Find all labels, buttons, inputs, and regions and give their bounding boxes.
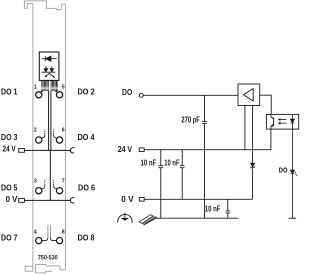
svg-text:DO 4: DO 4 xyxy=(78,133,95,142)
schematic 0V terminal square xyxy=(139,198,144,202)
svg-text:DO 3: DO 3 xyxy=(1,133,18,142)
svg-text:3: 3 xyxy=(34,178,37,184)
svg-text:DO 6: DO 6 xyxy=(78,183,95,192)
terminal 4 xyxy=(36,238,42,244)
module 24V terminal square xyxy=(19,149,25,153)
chassis earth symbol xyxy=(139,215,157,226)
module 0V wire xyxy=(24,199,70,201)
module 0V terminal square xyxy=(19,199,25,203)
wire amplifier output to optocoupler xyxy=(260,95,272,114)
DO output end bar xyxy=(289,217,296,219)
light arrows in optocoupler xyxy=(278,118,287,124)
svg-text:24 V: 24 V xyxy=(3,145,17,154)
svg-text:DO: DO xyxy=(279,166,288,175)
terminal 7 xyxy=(56,188,62,194)
wire DO to amplifier xyxy=(143,94,238,96)
svg-text:270 pF: 270 pF xyxy=(181,116,200,125)
svg-text:1: 1 xyxy=(34,84,37,90)
terminal 2 xyxy=(36,137,42,143)
svg-text:10 nF: 10 nF xyxy=(164,158,179,167)
svg-text:0 V: 0 V xyxy=(6,195,18,204)
wire amplifier supply pin 24V xyxy=(244,106,246,150)
DO input terminal circle xyxy=(139,93,143,97)
wire optocoupler emitter to 24V rail xyxy=(270,129,272,150)
terminal hatch block under box xyxy=(41,80,48,91)
0V rail xyxy=(144,198,252,200)
terminal 8 xyxy=(56,238,62,244)
svg-text:8: 8 xyxy=(62,230,65,236)
svg-text:DO 1: DO 1 xyxy=(1,87,18,96)
terminal 6 xyxy=(56,137,62,143)
wire amplifier pin with suppressor diode xyxy=(252,106,254,200)
svg-text:4: 4 xyxy=(34,230,37,236)
LED DO status indicator xyxy=(290,129,297,218)
module outline bottom profile xyxy=(25,265,65,273)
svg-text:10 nF: 10 nF xyxy=(205,204,221,213)
internal bus double line xyxy=(49,91,51,150)
svg-text:6: 6 xyxy=(62,128,65,134)
svg-text:10 nF: 10 nF xyxy=(141,158,157,167)
status LEDs inside box xyxy=(42,66,56,77)
module outline top profile xyxy=(24,1,65,10)
svg-text:0 V: 0 V xyxy=(121,195,134,204)
0V pass-through contact arc xyxy=(70,198,74,203)
svg-text:DO 5: DO 5 xyxy=(1,183,18,192)
diode D1 inside box xyxy=(42,56,57,61)
svg-text:2: 2 xyxy=(34,128,37,134)
LED in optocoupler xyxy=(290,114,294,129)
module left edge xyxy=(32,4,34,272)
svg-text:DO 2: DO 2 xyxy=(78,87,95,96)
module right edge xyxy=(64,4,66,270)
capacitor C1 10nF 24V to earth xyxy=(159,150,164,219)
24V pass-through contact arc xyxy=(70,148,74,153)
capacitor C2 10nF 24V to 0V xyxy=(180,150,185,200)
svg-text:DO: DO xyxy=(122,88,133,97)
svg-text:DO 7: DO 7 xyxy=(1,233,18,242)
24V rail xyxy=(144,149,271,151)
earth line xyxy=(156,217,238,219)
phototransistor in optocoupler xyxy=(271,114,274,129)
svg-text:750-530: 750-530 xyxy=(38,255,58,262)
capacitor C3 270pF DO to earth xyxy=(202,95,207,218)
capacitor C4 10nF 0V to earth xyxy=(226,199,231,218)
svg-text:7: 7 xyxy=(62,178,65,184)
terminal 3 xyxy=(36,188,42,194)
internal bus single line xyxy=(49,150,51,200)
svg-text:DO 8: DO 8 xyxy=(78,233,95,242)
module 24V wire xyxy=(24,149,70,151)
terminal 5 xyxy=(56,92,62,98)
functional earth symbol xyxy=(118,213,132,223)
suppressor diode V1 xyxy=(251,163,255,168)
amplifier U2 xyxy=(238,84,260,106)
electronics box U1 xyxy=(39,52,59,80)
terminal 1 xyxy=(36,92,42,98)
optocoupler U3 xyxy=(266,114,298,129)
schematic 24V terminal square xyxy=(139,148,144,152)
svg-text:24 V: 24 V xyxy=(118,145,133,154)
svg-text:5: 5 xyxy=(62,84,65,90)
